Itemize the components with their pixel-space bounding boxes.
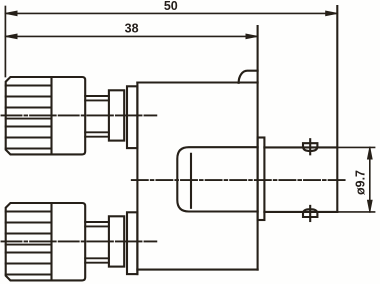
BNC barrel top line (264, 146, 337, 148)
knurl lines upper (6, 86, 52, 149)
set screw top slot (309, 139, 311, 154)
BNC barrel bottom line (264, 211, 337, 213)
dia 9.7 extension top (339, 146, 375, 148)
dia 9.7 arrow down (368, 200, 373, 212)
body bottom edge (137, 269, 257, 271)
upper post centerline (2, 114, 157, 116)
svg-text:38: 38 (125, 22, 139, 36)
knurled knob upper outline (6, 77, 86, 154)
BNC rear shell rounded boss (177, 147, 257, 211)
dia 9.7 extension bottom (339, 211, 375, 213)
knurl lines lower (6, 212, 52, 275)
dimension 50 arrow left (5, 11, 17, 16)
hex nut upper (109, 90, 124, 140)
BNC axis centerline (132, 179, 347, 181)
dia 9.7 dimension line (369, 147, 371, 212)
hex nut lower (109, 216, 124, 266)
threaded shaft upper (85, 96, 109, 137)
knurled knob lower outline (6, 203, 86, 280)
body right edge with 38 extension (257, 26, 259, 270)
body left edge (136, 83, 138, 275)
body top-right raised step (239, 71, 258, 83)
dimension 50 arrow right (326, 11, 338, 16)
dimension 50 line (5, 12, 337, 14)
dimension 38 line (5, 35, 257, 37)
mounting bush lower (127, 212, 137, 274)
lower post centerline (2, 240, 157, 242)
BNC rear contact line (190, 154, 192, 208)
dimension 38 arrow left (5, 34, 17, 39)
dimension 38 arrow right (246, 34, 258, 39)
mounting bush upper (127, 86, 137, 148)
body top edge (137, 81, 257, 83)
svg-text:50: 50 (164, 0, 178, 13)
dia 9.7 arrow up (368, 147, 373, 159)
BNC face with 50 extension (336, 6, 338, 212)
set screw bottom slot (309, 206, 311, 221)
BNC flange plate (258, 138, 265, 221)
knurled knob upper divider (50, 77, 52, 154)
set screw bottom (303, 209, 317, 217)
dimension 50 extension line left (4, 7, 6, 77)
knurled knob lower divider (50, 203, 52, 280)
set screw top (303, 143, 317, 151)
svg-text:ø9.7: ø9.7 (354, 170, 368, 195)
threaded shaft lower (85, 222, 109, 263)
